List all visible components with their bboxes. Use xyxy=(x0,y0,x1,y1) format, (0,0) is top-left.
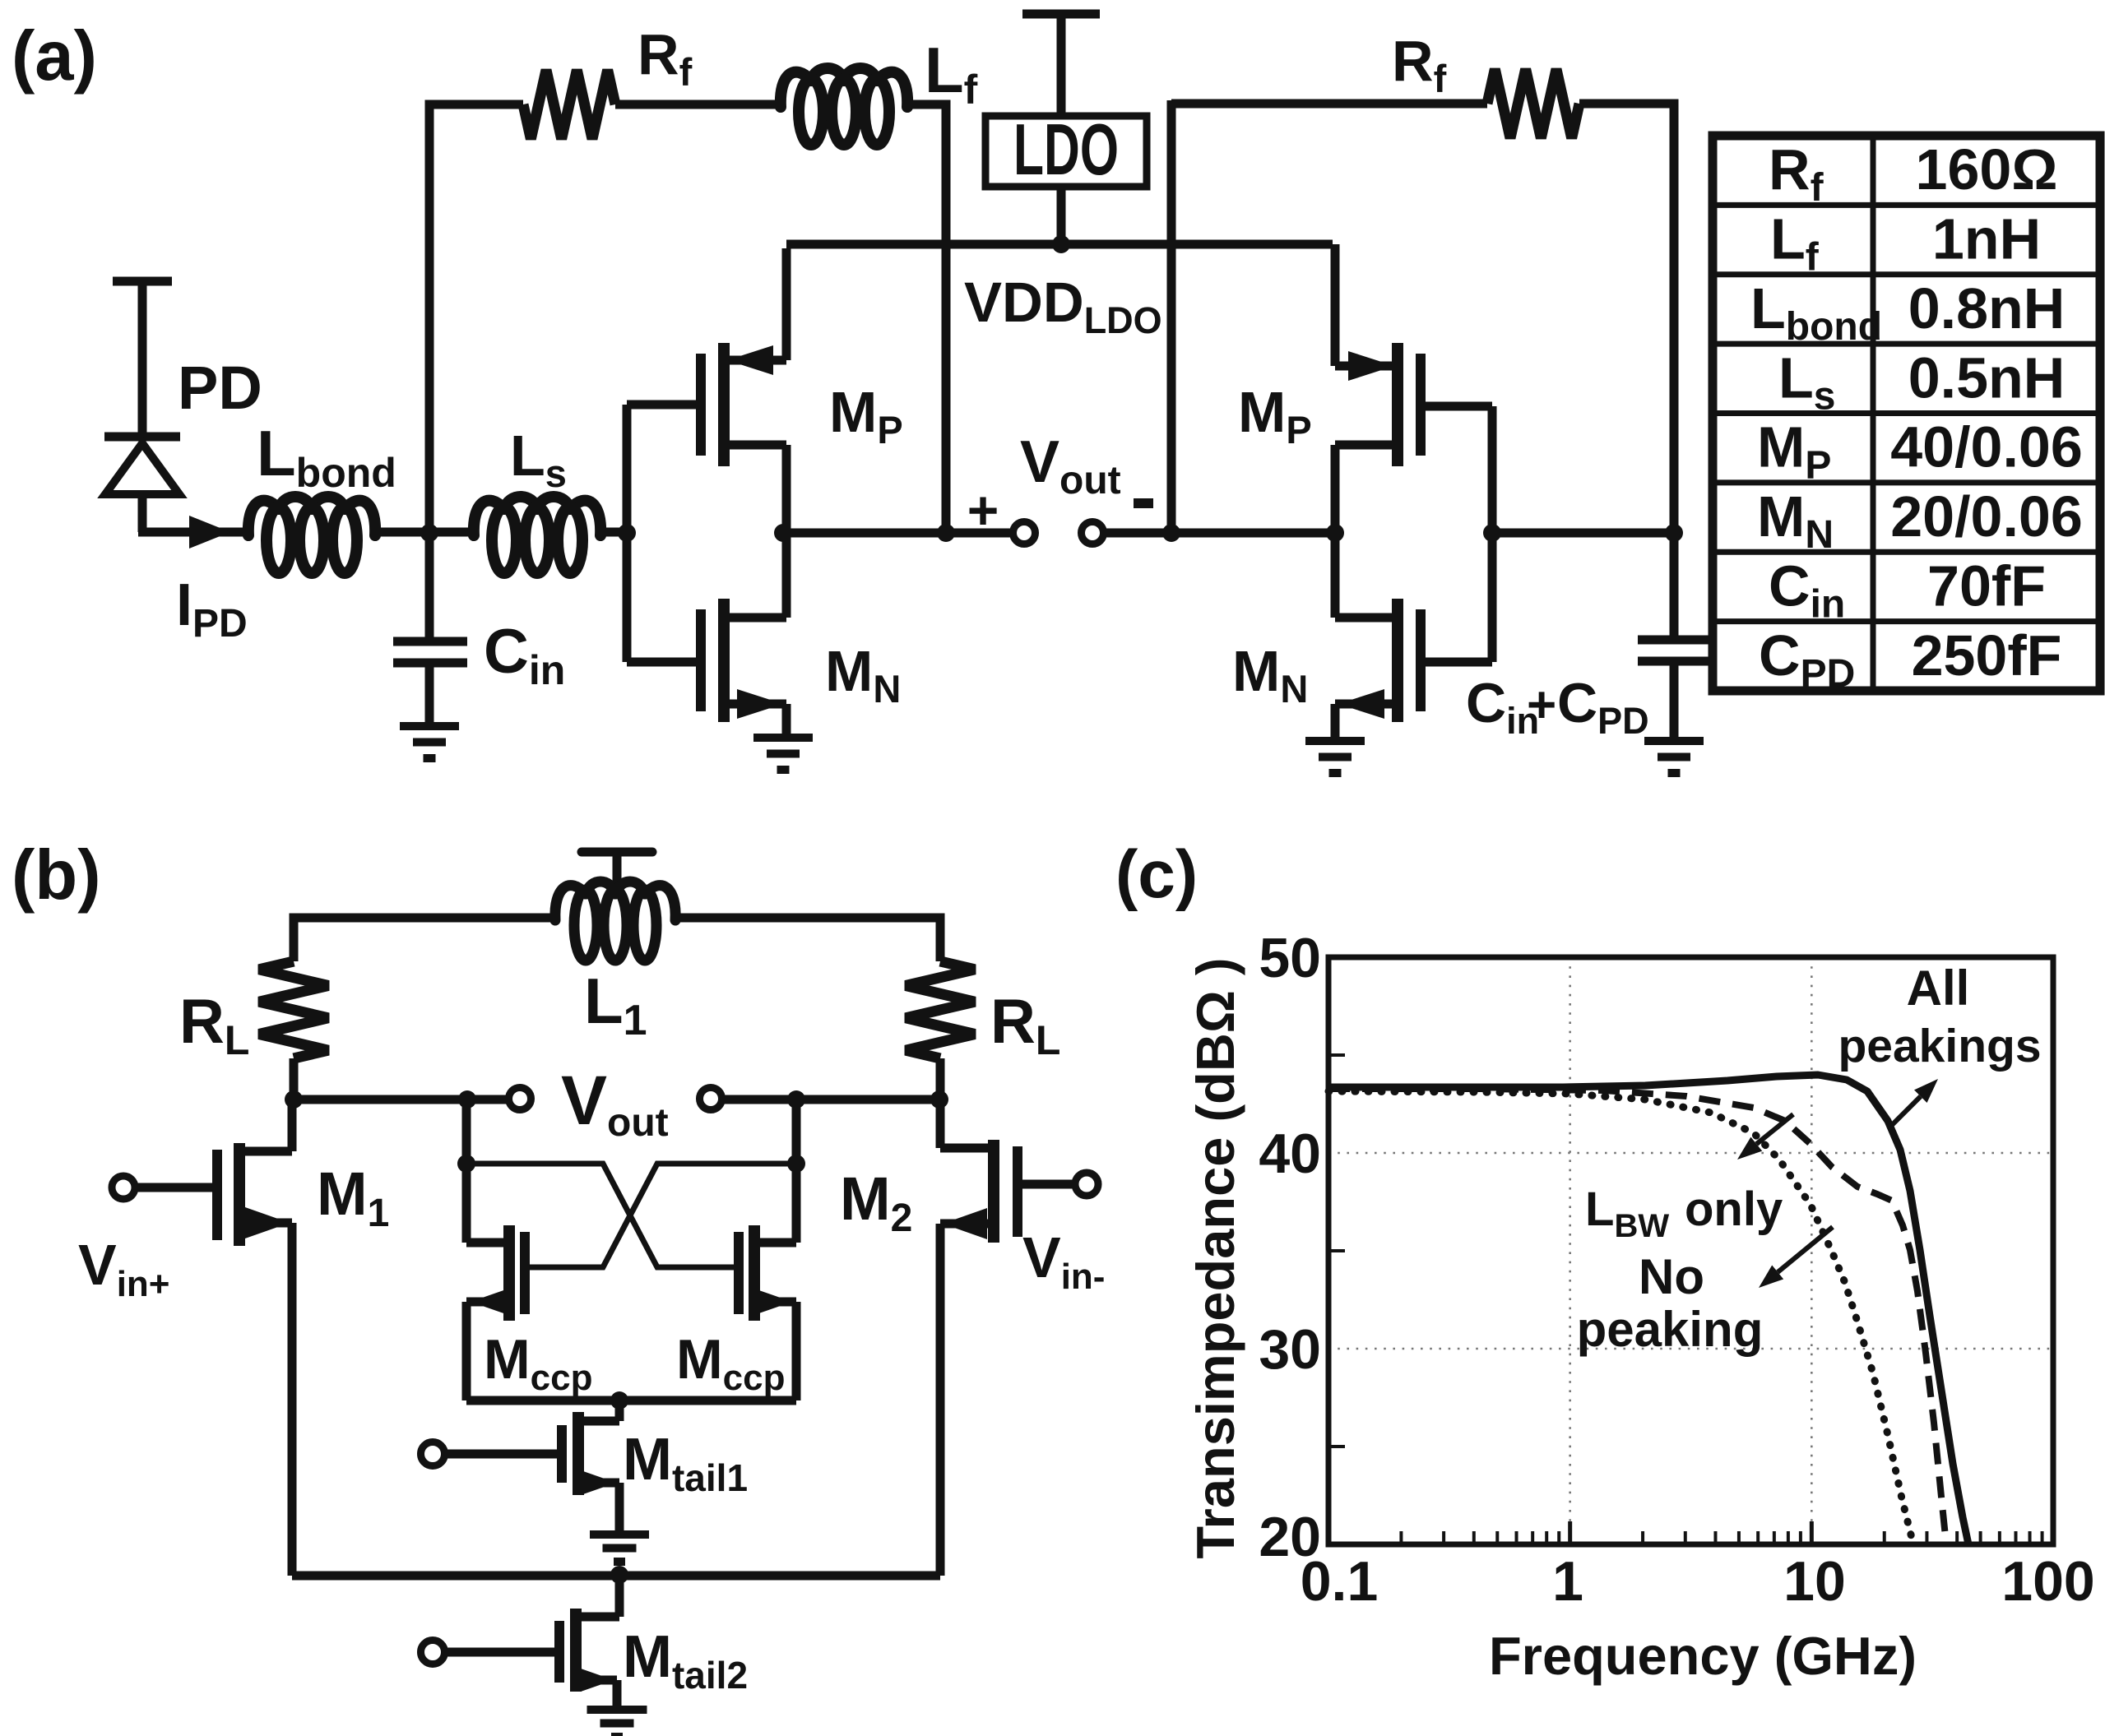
label Mtail2 xyxy=(623,1624,748,1697)
cross wire right-to-leftgate xyxy=(530,1164,796,1267)
wire right Rf to input cap column xyxy=(1579,104,1674,533)
node input (junction) xyxy=(420,524,438,542)
label L1 xyxy=(584,965,647,1044)
svg-text:40: 40 xyxy=(1259,1123,1321,1185)
svg-text:100: 100 xyxy=(2001,1550,2094,1613)
NMOS MN right gate bar xyxy=(1416,609,1426,711)
y axis title Transimpedance (dBohm) xyxy=(1185,957,1245,1558)
node bottom rail xyxy=(610,1566,628,1584)
resistor RL left xyxy=(259,961,328,1058)
terminal Mtail1 gate xyxy=(421,1442,445,1466)
svg-text:PD: PD xyxy=(178,354,262,422)
NMOS M1 gate bar xyxy=(212,1150,222,1240)
annotation All peakings xyxy=(1838,961,2041,1126)
LDO box xyxy=(985,109,1147,190)
panel label (c) xyxy=(1115,837,1198,912)
PMOS MP right drain xyxy=(1335,445,1398,533)
NMOS M1 source xyxy=(239,1207,292,1576)
resistor Rf right xyxy=(1487,69,1579,138)
label MN right xyxy=(1232,639,1308,711)
PMOS MP right gate stub xyxy=(1421,402,1492,411)
NMOS MN left drain xyxy=(724,533,786,618)
node Mccp left top xyxy=(458,1090,476,1109)
curve All peakings (solid) xyxy=(1328,1075,1968,1544)
y tick label 40 xyxy=(1259,1123,1321,1185)
svg-text:1nH: 1nH xyxy=(1932,207,2041,271)
label RL left xyxy=(179,987,249,1063)
ground for Cin+CPD xyxy=(1644,741,1704,773)
PMOS MP left gate bar xyxy=(696,354,706,456)
label Mccp right xyxy=(676,1328,785,1398)
ground for Mtail1 xyxy=(590,1535,649,1562)
NMOS Mtail2 channel bar xyxy=(570,1609,582,1692)
wire Mccp right node vertical xyxy=(792,1099,801,1243)
terminal Vout right xyxy=(700,1088,722,1110)
NMOS MN left gate stub xyxy=(627,658,698,667)
node RL-M1 junction xyxy=(285,1090,303,1109)
label PD xyxy=(178,354,262,422)
NMOS Mtail2 gate bar xyxy=(554,1621,564,1683)
PMOS MP right channel bar xyxy=(1392,343,1403,466)
NMOS Mccp left source xyxy=(466,1289,509,1400)
svg-text:10: 10 xyxy=(1783,1550,1846,1613)
svg-text:No: No xyxy=(1639,1249,1704,1304)
wire gate vertical left inverter xyxy=(623,405,632,662)
NMOS Mtail2 gate wire xyxy=(445,1648,555,1657)
x tick label 10 xyxy=(1783,1550,1846,1613)
label MP right xyxy=(1238,380,1312,451)
node RL-M2 junction xyxy=(930,1090,948,1109)
terminal Vin+ xyxy=(112,1176,135,1199)
node tail rail xyxy=(610,1391,628,1410)
svg-text:0.1: 0.1 xyxy=(1301,1550,1379,1613)
top rail panel b xyxy=(294,918,940,961)
VDD rail xyxy=(786,240,1333,249)
inductor Lbond xyxy=(248,497,375,573)
PD supply bar xyxy=(113,281,172,437)
LDO supply bar xyxy=(1022,14,1100,116)
annotation No peaking xyxy=(1577,1227,1833,1357)
y tick label 30 xyxy=(1259,1318,1321,1381)
NMOS MN right source (to gnd) xyxy=(1335,689,1398,738)
inductor Lf xyxy=(781,68,907,145)
NMOS M1 drain xyxy=(239,1099,292,1151)
NMOS Mccp right gate bar xyxy=(734,1232,744,1314)
x tick label 1 xyxy=(1552,1550,1583,1613)
wire feedback left vertical xyxy=(429,104,523,536)
label - polarity xyxy=(1134,498,1153,508)
svg-text:only: only xyxy=(1685,1183,1783,1236)
y tick label 20 xyxy=(1259,1506,1321,1568)
NMOS MN right gate stub xyxy=(1421,658,1492,667)
label Rf left xyxy=(638,22,693,94)
NMOS Mtail1 source xyxy=(582,1471,619,1535)
svg-text:40/0.06: 40/0.06 xyxy=(1890,415,2083,479)
x axis title Frequency (GHz) xyxy=(1489,1626,1917,1686)
plot axis ticks xyxy=(1328,1055,2042,1544)
inductor Ls xyxy=(474,497,600,573)
terminal Vout- xyxy=(1082,522,1104,544)
PMOS MP right gate bar xyxy=(1416,354,1426,456)
svg-text:50: 50 xyxy=(1259,927,1321,989)
svg-text:peaking: peaking xyxy=(1577,1302,1764,1357)
inductor L1 xyxy=(555,882,675,961)
curve LBW only (dashed) xyxy=(1328,1089,1946,1544)
plot gridlines xyxy=(1328,957,2053,1544)
NMOS M2 gate wire xyxy=(1022,1180,1075,1189)
wire Ls to inverter input xyxy=(599,528,629,537)
svg-text:LDO: LDO xyxy=(1013,109,1119,190)
NMOS Mtail1 drain xyxy=(582,1400,619,1421)
curve No peaking (dotted) xyxy=(1328,1091,1913,1544)
PMOS MP left source (to VDD) xyxy=(724,248,786,375)
node right inverter output xyxy=(1326,524,1344,542)
x tick label 100 xyxy=(2001,1550,2094,1613)
node inverter input xyxy=(618,524,636,542)
label Rf right xyxy=(1392,29,1447,100)
label Ls xyxy=(510,424,567,495)
table of component values xyxy=(1713,136,2100,696)
svg-text:160Ω: 160Ω xyxy=(1916,137,2058,201)
output row b left segment xyxy=(292,1095,509,1104)
NMOS Mccp right channel bar xyxy=(749,1225,760,1321)
svg-text:250fF: 250fF xyxy=(1912,623,2062,687)
node right inverter input xyxy=(1483,524,1501,542)
NMOS M2 channel bar xyxy=(988,1140,999,1243)
wire input node down to Cin xyxy=(425,532,434,641)
NMOS MN right drain xyxy=(1335,533,1398,618)
panel label (a) xyxy=(12,17,97,95)
x tick label 0.1 xyxy=(1301,1550,1379,1613)
label Mccp left xyxy=(484,1328,592,1398)
label Vin- xyxy=(1022,1225,1105,1297)
NMOS Mtail1 channel bar xyxy=(573,1412,584,1495)
label Cin+CPD xyxy=(1466,672,1649,742)
wire Mccp left node vertical xyxy=(462,1099,471,1243)
label Vout panel a xyxy=(1020,429,1121,502)
label M1 xyxy=(317,1160,389,1235)
y tick label 50 xyxy=(1259,927,1321,989)
label MP left xyxy=(829,380,903,451)
label MN left xyxy=(825,639,901,711)
NMOS Mtail2 drain xyxy=(580,1576,619,1617)
terminal Vout+ xyxy=(1013,522,1036,544)
wire output row Vout- segment xyxy=(1104,529,1335,538)
terminal Mtail2 gate xyxy=(421,1641,445,1664)
NMOS M1 gate wire xyxy=(135,1183,213,1192)
svg-text:(a): (a) xyxy=(12,17,97,95)
svg-text:(b): (b) xyxy=(12,836,101,914)
label VDDLDO xyxy=(964,271,1162,341)
label Vout panel b xyxy=(561,1062,669,1145)
NMOS Mccp right source xyxy=(754,1289,796,1400)
label + polarity xyxy=(967,479,999,540)
NMOS Mtail1 gate wire xyxy=(445,1450,558,1459)
resistor RL right xyxy=(906,961,975,1058)
ground for Cin xyxy=(400,726,459,758)
svg-text:+: + xyxy=(1527,677,1556,734)
svg-text:30: 30 xyxy=(1259,1318,1321,1381)
wire LDO to VDD rail xyxy=(1057,187,1066,244)
NMOS MN left channel bar xyxy=(718,599,730,722)
panel label (b) xyxy=(12,836,101,914)
terminal Vout left xyxy=(509,1088,531,1110)
wire RL right to output node xyxy=(936,1058,945,1100)
svg-text:All: All xyxy=(1907,961,1970,1016)
wire RL left to output node xyxy=(290,1058,299,1100)
NMOS MN left source (to gnd) xyxy=(724,689,786,738)
svg-text:Transimpedance (dBΩ ): Transimpedance (dBΩ ) xyxy=(1185,957,1245,1558)
label Mtail1 xyxy=(623,1427,748,1499)
label RL right xyxy=(990,987,1060,1063)
wire output row left segment xyxy=(783,529,1013,538)
node Mccp right cross xyxy=(787,1155,805,1173)
wire right Rf top left segment xyxy=(1171,100,1487,109)
NMOS M1 channel bar xyxy=(234,1143,245,1246)
NMOS MN right channel bar xyxy=(1392,599,1403,722)
label Lf xyxy=(925,34,978,113)
resistor Rf left xyxy=(523,70,615,139)
photodiode PD xyxy=(104,437,180,532)
node Mccp right top xyxy=(787,1090,805,1109)
wire right feedback vertical xyxy=(1167,100,1176,533)
node left inverter output xyxy=(774,524,792,542)
node right feedback tap xyxy=(1162,524,1180,542)
node right cap junction xyxy=(1665,524,1683,542)
NMOS M2 gate bar xyxy=(1013,1146,1022,1237)
cross wire left-to-rightgate xyxy=(466,1164,735,1267)
bottom rail panel b xyxy=(292,1572,940,1581)
node Vout+ feedback tap xyxy=(937,524,955,542)
wire Rf to Lf xyxy=(615,100,781,109)
wire right input gate vertical xyxy=(1488,406,1497,662)
PMOS MP left channel bar xyxy=(718,343,730,466)
ground for right inverter xyxy=(1305,741,1365,773)
svg-text:70fF: 70fF xyxy=(1927,553,2046,618)
NMOS Mtail1 gate bar xyxy=(557,1425,567,1483)
capacitor Cin xyxy=(393,641,467,727)
svg-text:(c): (c) xyxy=(1115,837,1198,912)
NMOS Mccp left channel bar xyxy=(503,1225,515,1321)
PMOS MP right source (to VDD) xyxy=(1335,244,1398,381)
NMOS MN left gate bar xyxy=(696,609,706,711)
wire PD to Lbond with IPD current arrow xyxy=(138,516,251,549)
wire right input row xyxy=(1490,529,1674,538)
NMOS M2 source xyxy=(940,1208,994,1576)
NMOS M2 drain xyxy=(940,1099,994,1148)
tail rail of Mccp xyxy=(466,1396,796,1405)
svg-text:1: 1 xyxy=(1552,1550,1583,1613)
L1 supply bar xyxy=(582,852,652,885)
svg-text:0.5nH: 0.5nH xyxy=(1908,345,2066,410)
node Mccp left cross xyxy=(457,1155,475,1173)
NMOS Mccp left drain xyxy=(466,1238,509,1248)
wire Lf down to Vout+ node xyxy=(907,104,946,533)
svg-text:0.8nH: 0.8nH xyxy=(1908,276,2066,340)
NMOS Mccp left gate bar xyxy=(520,1232,530,1314)
label Vin+ xyxy=(78,1233,170,1304)
PMOS MP left gate stub xyxy=(627,400,698,410)
svg-text:20/0.06: 20/0.06 xyxy=(1890,484,2083,549)
capacitor Cin+CPD xyxy=(1638,533,1710,742)
annotation LBW only xyxy=(1585,1114,1793,1244)
ground for left inverter xyxy=(753,738,813,770)
label Cin xyxy=(484,617,565,693)
terminal Vin- xyxy=(1075,1173,1098,1196)
label IPD xyxy=(176,572,248,646)
node LDO on VDD rail xyxy=(1052,235,1070,253)
svg-text:Frequency (GHz): Frequency (GHz) xyxy=(1489,1626,1917,1686)
plot frame xyxy=(1328,957,2053,1544)
PMOS MP left drain xyxy=(724,445,786,533)
NMOS Mccp right drain xyxy=(754,1238,796,1248)
svg-text:+: + xyxy=(967,479,999,540)
svg-text:peakings: peakings xyxy=(1838,1020,2041,1072)
output row b right segment xyxy=(721,1095,940,1104)
label Lbond xyxy=(257,417,396,496)
wire Lbond to input node xyxy=(373,528,477,537)
label M2 xyxy=(840,1164,912,1240)
NMOS Mtail2 source xyxy=(580,1669,617,1710)
ground for Mtail2 xyxy=(587,1710,647,1736)
